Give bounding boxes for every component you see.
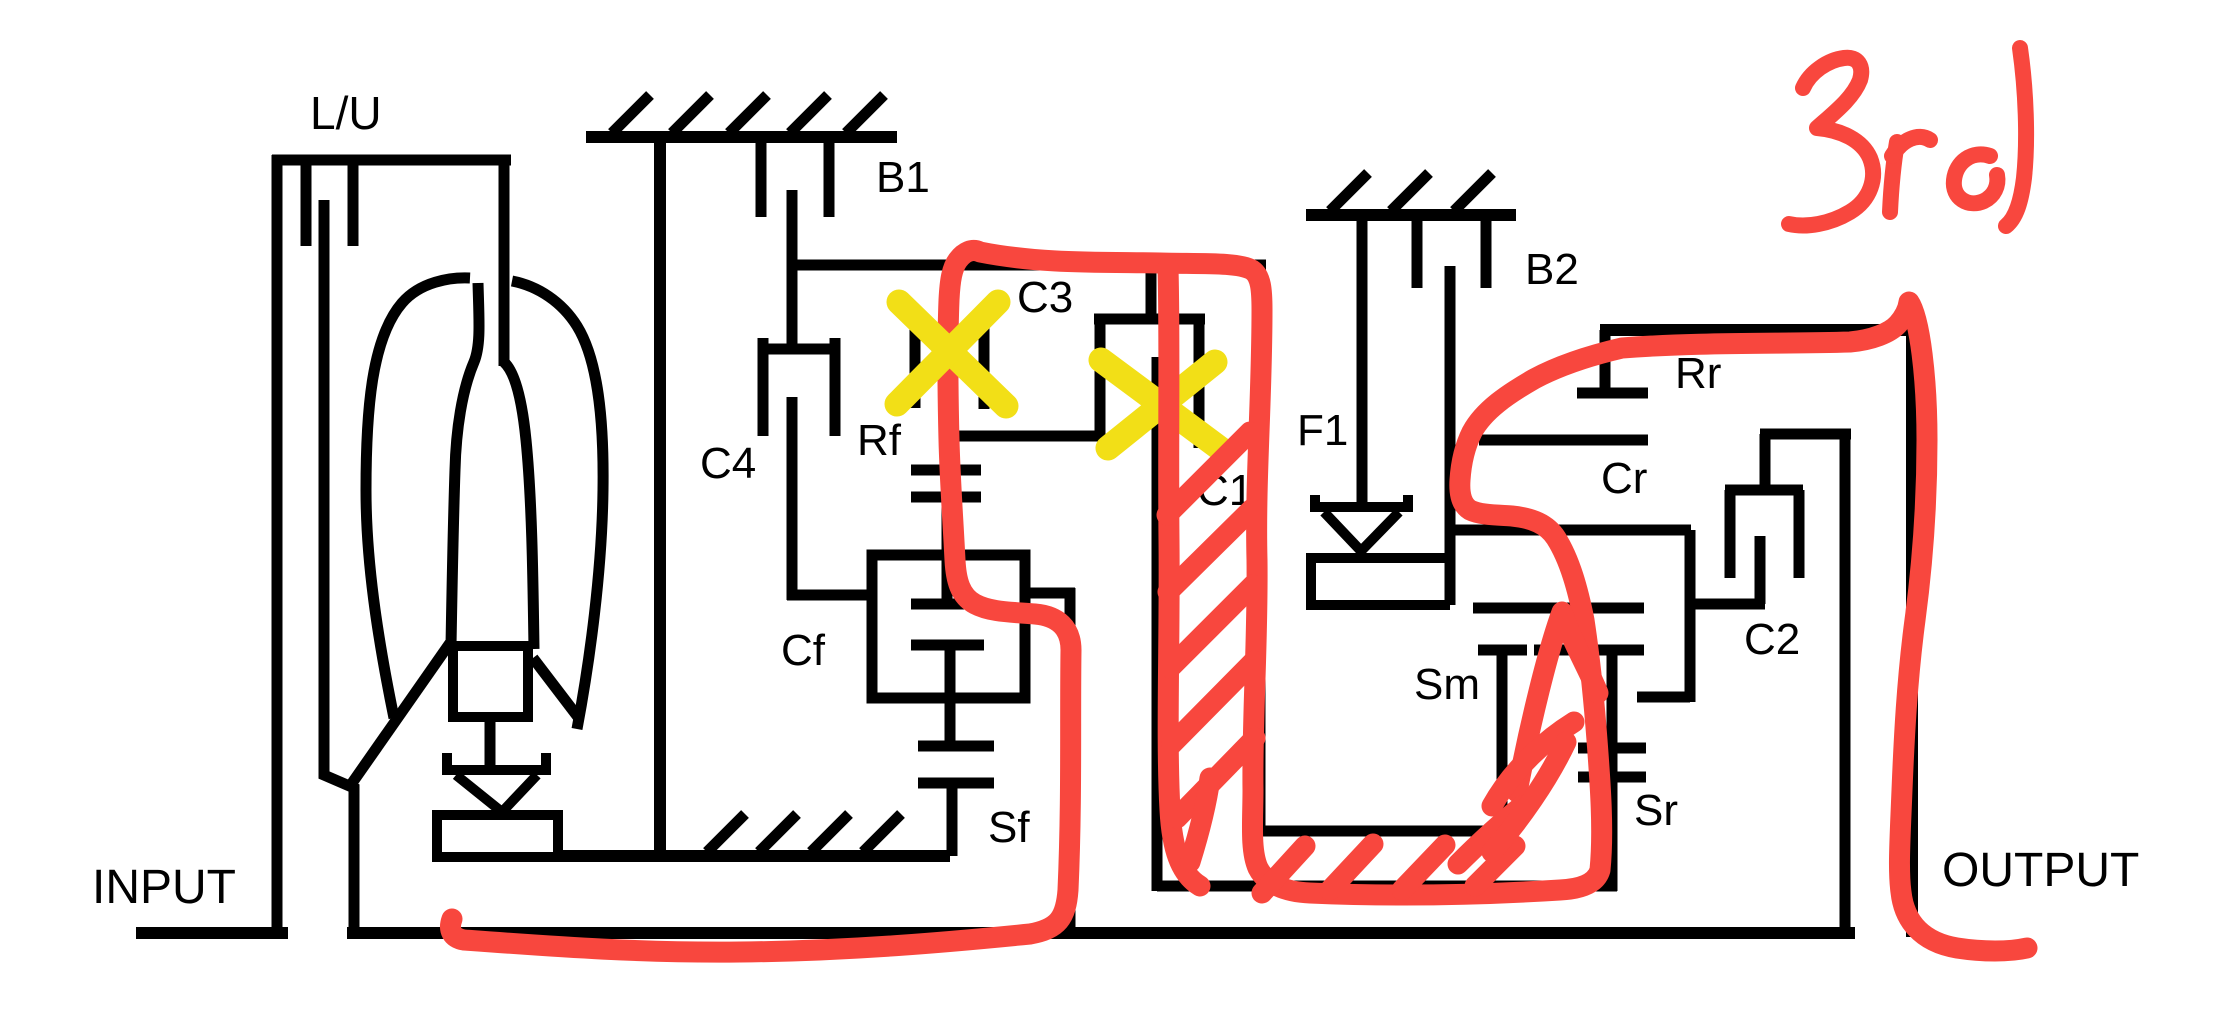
svg-text:B1: B1 xyxy=(876,153,930,202)
wire Cr tab to C2 xyxy=(1690,599,1765,610)
svg-text:Sm: Sm xyxy=(1414,660,1480,709)
wire Sf stem to ground xyxy=(947,783,958,856)
torque converter housing left wall xyxy=(272,155,283,939)
svg-text:INPUT: INPUT xyxy=(92,861,236,914)
red column curl xyxy=(1190,778,1210,862)
brake B1 plate 1 xyxy=(756,137,767,217)
red column hatch 2 xyxy=(1168,509,1252,592)
clutch C2 cap xyxy=(1760,429,1851,440)
one-way clutch F1 line xyxy=(1357,215,1368,503)
B1 hatch 3 xyxy=(729,95,767,133)
svg-text:F1: F1 xyxy=(1297,406,1348,455)
B1 hatch 2 xyxy=(672,95,710,133)
red column hatch 3 xyxy=(1170,585,1253,668)
brake B2 plate 1 xyxy=(1412,215,1423,288)
wire INPUT lead xyxy=(136,927,288,939)
B1 hatch 1 xyxy=(612,95,650,133)
one-way clutch triangle xyxy=(456,775,537,812)
torque converter housing top xyxy=(272,155,511,166)
wire Cr bottom tab xyxy=(1637,692,1690,703)
clutch C3 plate left xyxy=(910,327,921,408)
yellow X over clutch C1 (under red) xyxy=(1101,360,1222,450)
svg-text:L/U: L/U xyxy=(310,87,382,139)
F1 bar with ticks xyxy=(1310,495,1413,507)
carrier Cr mesh bar lower xyxy=(1479,435,1648,446)
sun Sm mesh bar top xyxy=(1473,603,1644,614)
red left wall of hatched column xyxy=(1168,268,1200,886)
wire stator stem xyxy=(485,712,496,770)
red column hatch 1 xyxy=(1167,432,1250,515)
one-way clutch bar with ticks xyxy=(442,753,551,770)
lower case hatch 1 xyxy=(707,814,745,852)
svg-text:Cr: Cr xyxy=(1601,454,1647,503)
clutch C4 cap xyxy=(758,338,840,349)
red bottom hatch 3 xyxy=(1402,845,1445,890)
lower case hatch 2 xyxy=(759,814,797,852)
torque converter turbine right arc xyxy=(504,362,534,649)
lockup clutch L/U plate 2 xyxy=(348,160,359,246)
ring gear Rf bar 2 xyxy=(911,492,981,503)
svg-text:Rr: Rr xyxy=(1675,349,1721,398)
wire stator right diagonal xyxy=(533,658,578,717)
clutch C1 cap xyxy=(1094,314,1205,325)
wire drum to Sm line xyxy=(1260,826,1507,837)
red bottom hatch 4 xyxy=(1475,846,1515,886)
wire Cf output vertical to bus xyxy=(1065,588,1076,933)
B2 hatch 1 xyxy=(1330,173,1368,211)
wire C4 to carrier Cf xyxy=(787,590,877,601)
wire Cf pinion to sun stem xyxy=(945,645,956,746)
sun Sm bar piece 2 xyxy=(1534,645,1587,656)
brake B2 middle plate xyxy=(1445,266,1456,605)
clutch C4 right leg xyxy=(830,349,841,436)
clutch C1 left leg xyxy=(1095,319,1106,441)
sun gear Sf bar 2 xyxy=(918,778,994,789)
brake B1 middle plate xyxy=(787,190,798,354)
ring gear Rr stub xyxy=(1600,330,1611,390)
red fork at Sm xyxy=(1517,612,1598,792)
clutch Cr drum wall xyxy=(1685,530,1696,702)
svg-text:OUTPUT: OUTPUT xyxy=(1942,844,2139,897)
case vertical wall xyxy=(654,137,666,856)
svg-text:Sf: Sf xyxy=(988,803,1030,852)
sun Sm left wall xyxy=(1497,650,1508,836)
Cf pinion bar 2 xyxy=(911,640,984,651)
clutch C2 middle plate xyxy=(1755,536,1766,604)
torque converter outer shell right arc xyxy=(512,281,603,729)
red column hatch 4 xyxy=(1172,661,1254,744)
clutch C2 inner leg 1 xyxy=(1725,490,1736,578)
F1 triangle xyxy=(1324,512,1399,551)
sun Sr bar 1 xyxy=(1578,743,1646,754)
wire C3 bottom bar to C1 xyxy=(955,431,1105,442)
wire C1 to Sr line xyxy=(1157,881,1617,892)
wire input shaft bottom bus xyxy=(347,927,1855,939)
svg-text:C4: C4 xyxy=(700,439,756,488)
sun Sm bar piece 1 xyxy=(1478,645,1527,656)
clutch C3 middle plate xyxy=(944,265,955,466)
svg-text:B2: B2 xyxy=(1525,245,1579,294)
one-way clutch rectangle xyxy=(437,815,558,857)
red column hatch 5 xyxy=(1177,738,1255,818)
red power flow trace xyxy=(451,250,2028,952)
wire C2 to input bus xyxy=(1840,434,1851,933)
wire input drum top xyxy=(787,260,1266,271)
red low hook xyxy=(1458,806,1522,864)
F1 rectangle xyxy=(1311,558,1450,605)
lower case hatch 4 xyxy=(863,814,901,852)
clutch C4 middle plate xyxy=(787,397,798,600)
output drum right wall xyxy=(1906,330,1918,937)
sun Sr right wall xyxy=(1607,650,1618,891)
Cf pinion bar 1 xyxy=(911,599,984,610)
B2 hatch 3 xyxy=(1454,173,1492,211)
brake B1 ground line xyxy=(586,131,897,143)
B1 hatch 5 xyxy=(846,95,884,133)
red main path xyxy=(451,250,2028,952)
clutch C4 left leg xyxy=(758,349,769,436)
red curl at Sm xyxy=(1492,722,1574,806)
torque converter turbine left arc xyxy=(451,283,479,646)
wire stator left diagonal xyxy=(350,643,450,786)
lower case hatch 3 xyxy=(811,814,849,852)
ring gear Rr mesh bar xyxy=(1577,388,1648,399)
brake B1 plate 2 xyxy=(824,137,835,217)
wire turbine shaft xyxy=(324,200,354,933)
output drum top xyxy=(1600,324,1918,336)
wire Cf output tab xyxy=(1025,588,1075,599)
wire input drum right wall xyxy=(1255,260,1266,836)
clutch C2 inner cap xyxy=(1725,485,1803,496)
B1 hatch 4 xyxy=(790,95,828,133)
sun Sm bar piece 3 xyxy=(1594,645,1644,656)
svg-text:C2: C2 xyxy=(1744,615,1800,664)
red handwritten 3rd xyxy=(1789,48,2026,226)
lockup clutch L/U plate 1 xyxy=(301,160,312,246)
brake B2 ground line xyxy=(1306,209,1516,221)
wire Cr input line xyxy=(1450,525,1691,536)
wire Rf to carrier stem xyxy=(942,497,953,604)
sun gear Sf bar 1 xyxy=(918,741,994,752)
torque converter outer shell left arc xyxy=(366,278,470,718)
clutch C2 inner leg 2 xyxy=(1794,490,1805,578)
red low diagonal at Sr xyxy=(1492,742,1566,852)
sun Sr bar 2 xyxy=(1578,772,1646,783)
clutch C1 middle plate xyxy=(1152,357,1163,891)
svg-text:Cf: Cf xyxy=(781,626,826,675)
stator hub square xyxy=(453,646,528,717)
svg-text:C3: C3 xyxy=(1017,273,1073,322)
B2 hatch 2 xyxy=(1391,173,1429,211)
svg-text:Rf: Rf xyxy=(857,416,902,465)
ring gear Rf bar 1 xyxy=(911,465,981,476)
carrier Cf box xyxy=(872,555,1025,698)
red bottom hatch 2 xyxy=(1330,844,1373,890)
wire pump drive xyxy=(499,160,510,366)
clutch C2 cap stub xyxy=(1760,434,1771,490)
yellow X over clutch C3 (over red) xyxy=(897,302,1006,406)
brake B2 plate 2 xyxy=(1481,215,1492,288)
svg-text:Sr: Sr xyxy=(1634,786,1678,835)
clutch C1 stub from drum xyxy=(1146,265,1157,319)
lower case ground line xyxy=(556,850,950,862)
red bottom hatch 1 xyxy=(1262,846,1305,893)
clutch C1 right leg xyxy=(1194,319,1205,448)
clutch C3 plate right xyxy=(979,321,990,409)
